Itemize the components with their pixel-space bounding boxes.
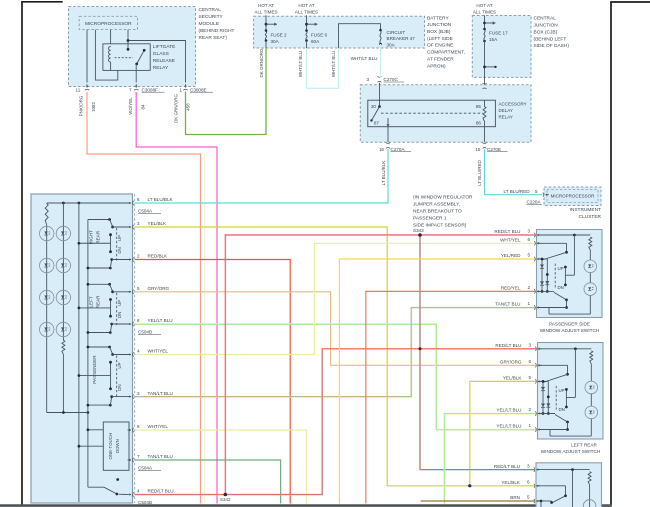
svg-text:DELAY: DELAY <box>499 108 513 113</box>
svg-text:456: 456 <box>186 103 191 111</box>
svg-text:1082: 1082 <box>91 101 96 112</box>
svg-text:UP: UP <box>117 362 122 368</box>
svg-text:WHT/LT BLU: WHT/LT BLU <box>351 56 378 61</box>
svg-text:DK GRN/ORG: DK GRN/ORG <box>174 94 179 124</box>
svg-text:HOT AT: HOT AT <box>476 3 492 8</box>
svg-text:OF ENGINE: OF ENGINE <box>427 43 453 49</box>
svg-text:S342: S342 <box>220 497 231 502</box>
svg-text:YEL/BLK: YEL/BLK <box>148 221 168 226</box>
svg-text:C270C: C270C <box>384 77 399 82</box>
svg-text:GLASS: GLASS <box>153 51 169 57</box>
svg-text:ACCESSORY: ACCESSORY <box>499 101 527 106</box>
svg-text:(LEFT SIDE: (LEFT SIDE <box>427 36 453 42</box>
svg-text:DN: DN <box>117 384 122 390</box>
svg-text:SIDE OF DASH): SIDE OF DASH) <box>534 43 570 49</box>
svg-text:87: 87 <box>374 121 380 126</box>
svg-text:RED/LT BLU: RED/LT BLU <box>494 464 520 469</box>
svg-text:MODULE: MODULE <box>199 21 220 27</box>
svg-text:LT BLU/BLK: LT BLU/BLK <box>381 161 386 186</box>
svg-text:16: 16 <box>379 147 385 152</box>
svg-text:GRY/ORG: GRY/ORG <box>500 360 522 365</box>
svg-text:WHT/YEL: WHT/YEL <box>500 238 521 243</box>
svg-text:CIRCUIT: CIRCUIT <box>387 30 406 35</box>
svg-text:DN: DN <box>117 312 122 318</box>
svg-text:S343: S343 <box>413 228 424 233</box>
svg-text:11: 11 <box>76 88 81 93</box>
svg-text:AT FENDER: AT FENDER <box>427 56 454 62</box>
svg-text:3: 3 <box>528 229 531 234</box>
svg-text:ALL TIMES: ALL TIMES <box>473 10 496 15</box>
svg-text:UP: UP <box>117 235 122 241</box>
svg-text:3: 3 <box>527 463 530 468</box>
svg-text:3: 3 <box>529 343 532 348</box>
svg-text:3: 3 <box>137 391 140 396</box>
svg-text:BRN: BRN <box>510 495 520 500</box>
svg-text:DN: DN <box>559 407 565 412</box>
svg-text:PNK/ORG: PNK/ORG <box>79 95 84 116</box>
svg-text:BOX (BJB): BOX (BJB) <box>427 29 451 35</box>
svg-text:YEL/LT BLU: YEL/LT BLU <box>496 424 521 429</box>
svg-text:LIFTGATE: LIFTGATE <box>153 44 176 50</box>
svg-text:4: 4 <box>137 489 140 494</box>
svg-text:JUNCTION: JUNCTION <box>427 22 452 28</box>
svg-text:5: 5 <box>535 189 538 194</box>
svg-text:TAN/LT BLU: TAN/LT BLU <box>495 302 520 307</box>
svg-text:YEL/RED: YEL/RED <box>501 253 521 258</box>
svg-text:WHT/LT BLU: WHT/LT BLU <box>331 51 336 77</box>
svg-text:C504A: C504A <box>138 466 153 471</box>
svg-text:5: 5 <box>527 495 530 500</box>
svg-text:5: 5 <box>137 286 140 291</box>
svg-text:RELAY: RELAY <box>153 65 169 71</box>
svg-text:5: 5 <box>528 253 531 258</box>
svg-text:C3008E: C3008E <box>190 87 207 92</box>
svg-text:YEL/LT BLU: YEL/LT BLU <box>148 318 173 323</box>
svg-text:60A: 60A <box>311 39 320 44</box>
svg-text:8: 8 <box>137 424 140 429</box>
svg-text:PASSENGER: PASSENGER <box>92 355 97 384</box>
svg-text:C504B: C504B <box>138 500 152 505</box>
svg-text:UP: UP <box>558 266 564 271</box>
svg-text:RELAY: RELAY <box>499 115 513 120</box>
svg-text:VIO/YEL: VIO/YEL <box>128 97 133 115</box>
svg-text:15: 15 <box>475 147 481 152</box>
svg-text:(BEHIND RIGHT: (BEHIND RIGHT <box>199 28 235 34</box>
svg-text:6: 6 <box>529 359 532 364</box>
svg-text:BATTERY: BATTERY <box>427 15 449 21</box>
svg-text:LT BLU/BLK: LT BLU/BLK <box>148 197 174 202</box>
svg-text:15A: 15A <box>489 37 498 42</box>
svg-text:CENTRAL: CENTRAL <box>534 16 557 22</box>
svg-text:BREAKER 47: BREAKER 47 <box>387 36 416 41</box>
svg-text:30A: 30A <box>387 42 396 47</box>
svg-text:6: 6 <box>527 480 530 485</box>
svg-text:UP: UP <box>559 388 565 393</box>
svg-text:7: 7 <box>129 88 132 93</box>
svg-text:TAN/LT BLU: TAN/LT BLU <box>148 391 173 396</box>
svg-text:6: 6 <box>528 237 531 242</box>
svg-text:C270E: C270E <box>487 147 501 152</box>
svg-text:WINDOW ADJUST SWITCH: WINDOW ADJUST SWITCH <box>540 328 600 333</box>
svg-text:WINDOW ADJUST SWITCH: WINDOW ADJUST SWITCH <box>541 449 601 454</box>
svg-text:1: 1 <box>528 301 531 306</box>
svg-text:LT BLU/RED: LT BLU/RED <box>504 189 531 194</box>
svg-text:C504A: C504A <box>138 209 153 214</box>
svg-text:ONE-TOUCH: ONE-TOUCH <box>108 433 113 460</box>
svg-text:COMPARTMENT,: COMPARTMENT, <box>427 50 465 56</box>
svg-text:4: 4 <box>137 349 140 354</box>
svg-text:CENTRAL: CENTRAL <box>199 7 222 13</box>
svg-text:3: 3 <box>137 221 140 226</box>
svg-text:FUSE 6: FUSE 6 <box>311 32 328 37</box>
svg-text:7: 7 <box>137 454 140 459</box>
svg-text:RED/YEL: RED/YEL <box>501 286 521 291</box>
svg-text:C270A: C270A <box>391 147 406 152</box>
svg-text:MICROPROCESSOR: MICROPROCESSOR <box>551 193 596 198</box>
svg-text:FUSE 17: FUSE 17 <box>489 31 508 36</box>
svg-text:C504B: C504B <box>138 330 152 335</box>
svg-text:YEL/BLK: YEL/BLK <box>501 480 521 485</box>
svg-text:RIGHT: RIGHT <box>89 230 94 244</box>
svg-text:LEFT: LEFT <box>89 296 94 307</box>
svg-text:HOT AT: HOT AT <box>298 3 314 8</box>
svg-text:1: 1 <box>180 88 183 93</box>
svg-text:C3008F: C3008F <box>142 87 159 92</box>
svg-text:TAN/LT BLU: TAN/LT BLU <box>148 454 173 459</box>
svg-text:6: 6 <box>137 197 140 202</box>
svg-text:DOWN: DOWN <box>115 439 120 453</box>
svg-text:SECURITY: SECURITY <box>199 14 224 20</box>
svg-text:RED/BLK: RED/BLK <box>148 254 169 259</box>
svg-text:INSTRUMENT: INSTRUMENT <box>570 207 602 213</box>
svg-text:86: 86 <box>476 121 482 126</box>
svg-text:MICROPROCESSOR: MICROPROCESSOR <box>85 21 132 27</box>
svg-text:HOT AT: HOT AT <box>258 3 274 8</box>
svg-text:1: 1 <box>529 423 532 428</box>
svg-text:30A: 30A <box>271 39 280 44</box>
svg-text:2: 2 <box>528 285 531 290</box>
svg-text:5: 5 <box>529 375 532 380</box>
svg-text:2: 2 <box>529 407 532 412</box>
svg-text:2: 2 <box>137 254 140 259</box>
svg-text:30: 30 <box>371 104 377 109</box>
svg-text:FUSE 2: FUSE 2 <box>271 32 288 37</box>
svg-text:6: 6 <box>137 318 140 323</box>
svg-text:ALL TIMES: ALL TIMES <box>254 10 277 15</box>
svg-text:JUNCTION: JUNCTION <box>534 23 559 29</box>
svg-text:YEL/LT BLU: YEL/LT BLU <box>496 408 521 413</box>
svg-text:PASSENGER 1: PASSENGER 1 <box>413 216 447 222</box>
svg-text:(BEHIND LEFT: (BEHIND LEFT <box>534 36 567 42</box>
svg-text:NEAR BREAKOUT TO: NEAR BREAKOUT TO <box>413 209 462 215</box>
svg-text:WHT/YEL: WHT/YEL <box>148 349 169 354</box>
svg-text:RED/LT BLU: RED/LT BLU <box>495 343 521 348</box>
svg-text:GRY/ORG: GRY/ORG <box>148 286 170 291</box>
svg-text:DK GRN/ORG: DK GRN/ORG <box>259 48 264 78</box>
svg-text:REAR: REAR <box>96 230 101 243</box>
svg-text:BOX (CJB): BOX (CJB) <box>534 29 558 35</box>
svg-text:ALL TIMES: ALL TIMES <box>295 10 318 15</box>
svg-text:REAR: REAR <box>96 295 101 308</box>
svg-text:CLUSTER: CLUSTER <box>579 214 602 220</box>
svg-text:(IN WINDOW REGULATOR: (IN WINDOW REGULATOR <box>413 195 473 201</box>
svg-text:RED/LT BLU: RED/LT BLU <box>148 489 174 494</box>
svg-text:UP: UP <box>117 300 122 306</box>
svg-text:APRON): APRON) <box>427 63 446 69</box>
svg-text:PASSENGER SIDE: PASSENGER SIDE <box>549 322 590 327</box>
svg-text:REAR SEAT): REAR SEAT) <box>199 35 228 41</box>
svg-text:JUMPER ASSEMBLY,: JUMPER ASSEMBLY, <box>413 202 460 208</box>
svg-text:RED/LT BLU: RED/LT BLU <box>494 229 520 234</box>
svg-text:C220A: C220A <box>527 199 542 204</box>
svg-text:RELEASE: RELEASE <box>153 58 175 64</box>
svg-text:LT BLU/RED: LT BLU/RED <box>477 159 482 185</box>
svg-text:85: 85 <box>476 104 482 109</box>
svg-text:DN: DN <box>117 247 122 253</box>
svg-text:LEFT REAR: LEFT REAR <box>571 442 597 447</box>
svg-text:WHT/YEL: WHT/YEL <box>148 424 169 429</box>
svg-text:WHT/LT BLU: WHT/LT BLU <box>298 51 303 77</box>
svg-text:84: 84 <box>141 104 146 110</box>
svg-text:DN: DN <box>558 285 564 290</box>
svg-text:3: 3 <box>366 77 369 82</box>
svg-text:YEL/BLK: YEL/BLK <box>503 376 523 381</box>
